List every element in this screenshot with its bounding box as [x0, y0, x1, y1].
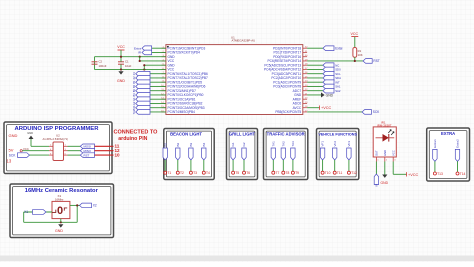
svg-text:T1: T1 — [167, 171, 171, 175]
pin T10 — [321, 171, 331, 175]
wire net TA1 — [150, 107, 166, 109]
wire resonator loop — [23, 212, 25, 222]
svg-text:10: 10 — [115, 152, 121, 157]
svg-text:T4: T4 — [206, 171, 210, 175]
net flag X1 — [132, 71, 150, 76]
svg-text:Extra1: Extra1 — [433, 139, 437, 148]
svg-text:EXTRA: EXTRA — [441, 131, 455, 136]
svg-text:B1: B1 — [163, 142, 167, 146]
svg-text:VCC: VCC — [391, 150, 395, 156]
wire net G1 — [150, 98, 166, 100]
U1 left pins with labels — [161, 46, 208, 114]
svg-text:T8: T8 — [286, 171, 290, 175]
wire U2 left 2 — [22, 150, 49, 152]
svg-text:T3: T3 — [193, 171, 197, 175]
svg-text:SA2: SA2 — [335, 89, 341, 93]
wire net SCL — [307, 73, 323, 75]
svg-text:B4: B4 — [132, 93, 136, 97]
wire net SA2 — [307, 90, 323, 92]
wire row5 GND jog — [143, 65, 145, 69]
svg-text:ARDUINO ISP PROGRAMMER: ARDUINO ISP PROGRAMMER — [14, 126, 99, 132]
net flag SCK — [362, 110, 380, 115]
svg-text:VCC: VCC — [23, 147, 29, 151]
svg-text:16MHz Ceramic Resonator: 16MHz Ceramic Resonator — [25, 188, 99, 194]
+VCC label IR — [407, 172, 419, 177]
svg-text:B2: B2 — [176, 142, 180, 146]
svg-text:TA1: TA1 — [271, 141, 275, 147]
IR1 pin names — [375, 150, 396, 156]
svg-text:G2: G2 — [132, 101, 136, 105]
net flag SA1 — [323, 84, 341, 89]
svg-text:IR: IR — [375, 184, 379, 187]
svg-text:SCK: SCK — [373, 110, 380, 114]
U2 pin stubs row 3 — [49, 154, 53, 156]
wire net INT — [307, 81, 323, 83]
svg-text:VCC: VCC — [117, 45, 125, 49]
resonator X1 16Mhz — [52, 194, 70, 219]
net flag Extra1 — [433, 139, 437, 162]
svg-text:GND: GND — [381, 181, 389, 185]
pin T14 — [456, 172, 466, 176]
frame BEACON LIGHT — [164, 129, 214, 180]
svg-text:GND: GND — [383, 150, 387, 156]
net flag G2 — [242, 142, 246, 160]
svg-text:T6: T6 — [246, 171, 250, 175]
svg-text:X1: X1 — [24, 210, 28, 214]
svg-text:C1: C1 — [125, 60, 129, 64]
U2 pin stubs row 1 — [49, 145, 53, 147]
svg-text:VF3: VF3 — [347, 141, 351, 147]
wire net B4 — [150, 94, 166, 96]
wire top rail GND row3 — [95, 56, 166, 58]
net flag TA2 — [281, 141, 285, 160]
wire U2 left 1 — [31, 145, 49, 147]
wire VF3 to T12 — [348, 160, 350, 171]
power VCC symbol above R1 — [351, 32, 359, 37]
svg-text:Extra2: Extra2 — [456, 139, 460, 148]
power supply VCC symbol — [117, 45, 125, 50]
frame EXTRA — [427, 128, 470, 181]
frame 16MHz Ceramic Resonator — [10, 184, 114, 238]
svg-text:TA1: TA1 — [132, 105, 136, 110]
wire RESET row — [307, 60, 363, 62]
svg-text:VF1: VF1 — [321, 141, 325, 147]
wire U2 to MOSI flag — [68, 145, 81, 147]
wire X1 net — [24, 211, 52, 213]
net flag Extal — [323, 46, 343, 51]
wire C1 vertical — [120, 57, 122, 62]
svg-text:MOSI: MOSI — [84, 145, 92, 149]
wire net X1 — [150, 73, 166, 75]
ground symbol IR — [381, 175, 389, 185]
svg-text:C2: C2 — [99, 60, 103, 64]
pin T4 — [202, 171, 210, 175]
svg-text:TA2: TA2 — [281, 141, 285, 147]
svg-text:RST: RST — [373, 59, 379, 63]
pin circle VCC — [20, 150, 22, 152]
ground symbol above U2 wire — [27, 131, 33, 146]
wire Extal — [307, 47, 323, 49]
net flag IR (PD4) — [138, 50, 152, 55]
net flag B4 — [202, 142, 206, 160]
pin T1 — [164, 171, 172, 175]
svg-text:10K: 10K — [358, 53, 363, 57]
net flag Extra (PD3) — [134, 46, 152, 51]
svg-text:16Mhz: 16Mhz — [55, 197, 64, 201]
wire TA2 to T8 — [282, 160, 284, 171]
wire U2 to RST flag — [68, 154, 81, 156]
svg-text:+VCC: +VCC — [321, 106, 331, 110]
svg-text:Extal: Extal — [335, 46, 342, 50]
net flag IR (receiver out) — [374, 174, 378, 187]
svg-text:T7: T7 — [276, 171, 280, 175]
wire G2 to T6 — [243, 160, 245, 171]
wire net G2 — [150, 102, 166, 104]
wire left cap branch — [94, 57, 96, 70]
net flag VF3 — [347, 141, 351, 160]
net flag B1 — [132, 80, 150, 85]
net flag NC — [323, 63, 339, 68]
wire Extra2 to T14 — [457, 161, 459, 172]
wire net B3 — [150, 90, 166, 92]
IR1 LED symbol — [376, 130, 395, 142]
svg-text:TRAFFIC ADVISOR: TRAFFIC ADVISOR — [267, 132, 305, 137]
wire net X2 — [150, 77, 166, 79]
red wire to pin 10 — [95, 154, 114, 156]
net flag G1 — [132, 97, 150, 102]
svg-text:13: 13 — [7, 159, 12, 164]
ground symbol below C1 — [117, 71, 125, 83]
IR receiver IR1 IRM-3638T — [373, 120, 396, 157]
junction dot RST — [354, 60, 356, 62]
capacitor C2 100nF — [92, 60, 107, 68]
frame GRILL LIGHT — [227, 129, 258, 180]
svg-text:B2: B2 — [132, 84, 136, 88]
wire net TA2 — [150, 111, 166, 113]
svg-text:MISO: MISO — [84, 149, 92, 153]
net flag B4 — [132, 93, 150, 98]
wire net NC — [307, 64, 323, 66]
pin T13 — [433, 172, 443, 176]
wire B3 to T3 — [190, 160, 192, 171]
svg-text:T10: T10 — [325, 171, 331, 175]
svg-text:GND: GND — [326, 93, 334, 97]
net flag B3 — [189, 142, 193, 160]
wire net SA1 — [307, 85, 323, 87]
net flag TA3 — [291, 141, 295, 160]
net flag Extra2 — [455, 139, 459, 162]
pin T7 — [272, 171, 280, 175]
svg-text:T9: T9 — [295, 171, 299, 175]
net flag TA2 — [132, 109, 150, 114]
label CONNECTED TO arduino PIN — [114, 130, 159, 143]
wire PD3 — [152, 47, 166, 49]
IC U1 ATMEGA328P-AU microcontroller — [166, 35, 303, 114]
svg-text:X2: X2 — [93, 204, 97, 208]
red wire to pin 11 — [95, 145, 114, 147]
svg-text:B4: B4 — [202, 142, 206, 146]
wire Extra1 to T13 — [434, 161, 436, 172]
pin T12 — [347, 171, 357, 175]
net flag B2 — [176, 142, 180, 160]
net flag SCL — [323, 71, 341, 76]
wire VCC to R1 — [354, 37, 356, 48]
+VCC label AVCC row15 — [307, 106, 331, 111]
wire net B2 — [150, 85, 166, 87]
svg-text:G2: G2 — [242, 142, 246, 146]
svg-text:T14: T14 — [460, 172, 466, 176]
net flag SD0 — [323, 67, 341, 72]
pin T5 — [232, 171, 240, 175]
pin T2 — [176, 171, 184, 175]
wire TA1 to T7 — [272, 160, 274, 171]
svg-text:T12: T12 — [351, 171, 357, 175]
svg-text:G1: G1 — [231, 142, 235, 146]
svg-text:U2: U2 — [56, 134, 60, 138]
capacitor C1 10uF — [118, 60, 132, 68]
svg-text:10uF: 10uF — [125, 64, 132, 68]
svg-text:B3: B3 — [189, 142, 193, 146]
svg-text:ATMEGA328P-AU: ATMEGA328P-AU — [232, 39, 256, 43]
wire net B1 — [150, 81, 166, 83]
net flag SA2 — [323, 88, 341, 93]
net flag INT — [323, 80, 340, 85]
net flag MOSI — [80, 144, 94, 149]
pin T6 — [243, 171, 251, 175]
net flag SCK (ISP) — [9, 153, 30, 158]
net flag B2 — [132, 84, 150, 89]
wire U2 to MISO flag — [68, 150, 81, 152]
svg-text:PCINT4/MISO)PB4: PCINT4/MISO)PB4 — [168, 110, 196, 114]
wire X2 net — [70, 204, 80, 206]
wire IR vcc — [392, 162, 394, 175]
IR1 pin stubs — [376, 157, 396, 162]
connector U2 A1-6PA-2.54DSA(71) — [43, 134, 69, 161]
pin T11 — [333, 171, 342, 175]
U1 right pins with labels — [264, 46, 308, 114]
svg-text:GND: GND — [9, 133, 18, 138]
net flag TA1 — [271, 141, 275, 160]
net flag X2 — [80, 203, 97, 208]
frame TRAFFIC ADVISOR — [264, 129, 308, 180]
ground symbol resonator — [55, 224, 63, 233]
svg-text:GND: GND — [117, 79, 125, 83]
svg-text:B1: B1 — [132, 80, 136, 84]
wire VCC drop — [120, 50, 122, 57]
frame ARDUINO ISP PROGRAMMER — [4, 122, 112, 174]
svg-text:T2: T2 — [180, 171, 184, 175]
net flag B1 — [163, 142, 167, 160]
svg-text:VCC: VCC — [351, 32, 359, 36]
svg-text:OUT: OUT — [375, 150, 379, 156]
wire IR gnd — [384, 162, 386, 175]
svg-text:X2: X2 — [132, 76, 136, 80]
svg-text:B3: B3 — [132, 89, 136, 93]
net flag TA1 — [132, 105, 150, 110]
pin T9 — [291, 171, 299, 175]
net flag VF2 — [333, 141, 337, 160]
net flag SDA — [323, 76, 341, 81]
wire net SD0 — [307, 68, 323, 70]
net flag X1 — [24, 210, 46, 215]
svg-text:0: 0 — [57, 205, 63, 217]
wire G1 to T5 — [232, 160, 234, 171]
svg-text:BEACON LIGHT: BEACON LIGHT — [170, 132, 202, 137]
wire VF2 to T11 — [334, 160, 336, 171]
ground symbol right GND row12 — [307, 92, 334, 97]
wire B1 to T1 — [164, 160, 166, 171]
svg-text:100nF: 100nF — [99, 64, 107, 68]
wire IR out — [375, 162, 377, 175]
resistor R1 10K — [353, 48, 363, 58]
pin T8 — [282, 171, 290, 175]
net flag G2 — [132, 101, 150, 106]
svg-text:VF2: VF2 — [333, 141, 337, 147]
svg-text:TA3: TA3 — [291, 141, 295, 147]
wire B4 to T4 — [203, 160, 205, 171]
svg-text:PB5(SCK/PCINT5: PB5(SCK/PCINT5 — [275, 110, 301, 114]
svg-text:G1: G1 — [132, 97, 136, 101]
svg-text:RST: RST — [84, 153, 90, 157]
wire row4 VCC jog — [139, 57, 141, 61]
wire B2 to T2 — [177, 160, 179, 171]
wire net SDA — [307, 77, 323, 79]
svg-text:GND: GND — [27, 131, 33, 135]
wire bottom rail VCC row6 — [95, 68, 166, 70]
net flag G1 — [231, 142, 235, 160]
svg-text:5V: 5V — [9, 148, 14, 153]
svg-text:T5: T5 — [235, 171, 239, 175]
wire VF1 to T10 — [322, 160, 324, 171]
net flag RST — [363, 59, 380, 64]
svg-text:GRILL LIGHT: GRILL LIGHT — [229, 132, 256, 137]
wire R1 to RST net — [354, 57, 356, 61]
wire SCK row16 — [307, 111, 362, 113]
wire U2 left 3 — [30, 154, 50, 156]
U2 pin stubs row 2 — [49, 150, 53, 152]
svg-text:CONNECTED TO: CONNECTED TO — [114, 130, 159, 136]
svg-text:TA2: TA2 — [132, 109, 136, 114]
svg-text:SCK: SCK — [9, 153, 16, 157]
frame VEHICLE FUNCTIONS — [317, 129, 359, 180]
net flag MISO — [80, 148, 94, 153]
net flag B3 — [132, 88, 150, 93]
svg-text:X1: X1 — [132, 72, 136, 76]
svg-text:arduino PIN: arduino PIN — [118, 136, 147, 142]
net flag X2 — [132, 76, 150, 81]
svg-text:T11: T11 — [337, 171, 343, 175]
svg-text:T13: T13 — [437, 172, 443, 176]
svg-text:VEHICLE FUNCTIONS: VEHICLE FUNCTIONS — [318, 133, 357, 137]
svg-text:A1-6PA-2.54DSA(71): A1-6PA-2.54DSA(71) — [43, 137, 69, 141]
junction dots power rails — [120, 56, 122, 58]
wire resonator GND pin — [60, 219, 62, 223]
svg-text:+VCC: +VCC — [408, 173, 418, 177]
wire TA3 to T9 — [292, 160, 294, 171]
net flag VF1 — [320, 141, 324, 160]
red wire to pin 12 — [95, 150, 114, 152]
svg-text:GND: GND — [55, 229, 63, 233]
wire PD4 — [152, 51, 166, 53]
pin T3 — [189, 171, 197, 175]
net flag RST (ISP) — [80, 153, 94, 158]
